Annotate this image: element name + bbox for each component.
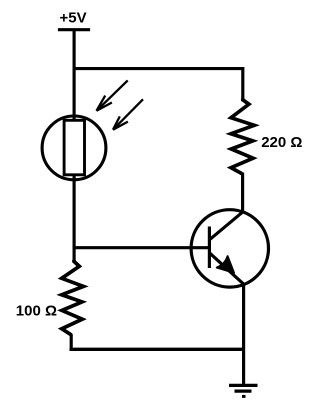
svg-text:+5V: +5V	[60, 9, 87, 26]
svg-text:100 Ω: 100 Ω	[16, 303, 57, 320]
svg-text:220 Ω: 220 Ω	[261, 134, 302, 151]
